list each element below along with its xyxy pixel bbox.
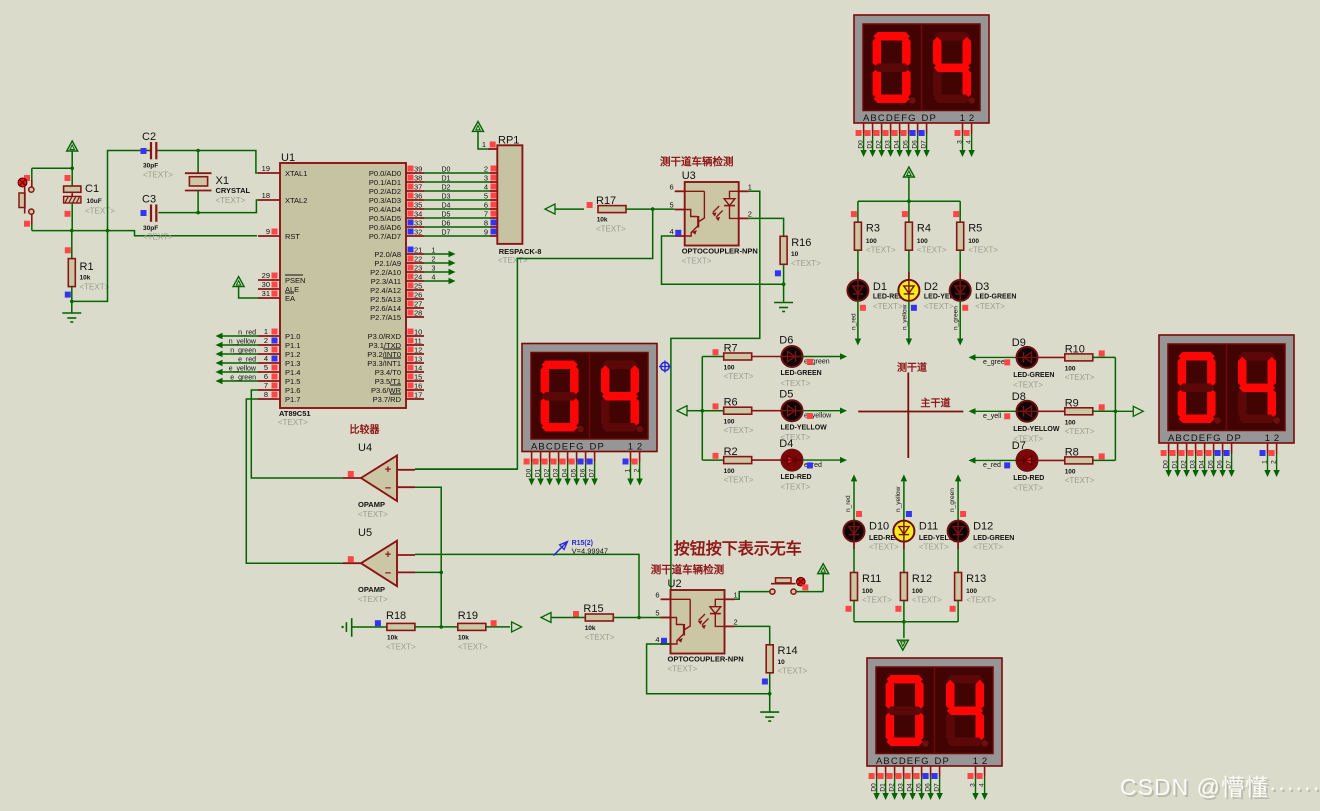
svg-text:28: 28	[414, 309, 422, 318]
svg-text:RESPACK-8: RESPACK-8	[499, 247, 542, 256]
svg-text:R1: R1	[80, 261, 94, 273]
svg-text:n_red: n_red	[850, 313, 857, 330]
svg-text:10k: 10k	[458, 635, 469, 642]
wire U4- to R18/R19 node	[415, 487, 441, 627]
svg-text:D4: D4	[779, 438, 793, 450]
wire C3 to XTAL2	[158, 200, 258, 214]
svg-text:30: 30	[262, 280, 270, 289]
svg-text:n_yellow: n_yellow	[901, 304, 908, 330]
wire R13 bottom	[950, 601, 959, 622]
svg-text:10k: 10k	[585, 625, 596, 632]
svg-text:100: 100	[1065, 365, 1076, 372]
wire R2 to D4	[752, 459, 782, 461]
svg-text:P1.0: P1.0	[285, 332, 300, 341]
svg-text:5: 5	[484, 192, 488, 201]
wire R15 to U2 pin5	[613, 616, 674, 620]
svg-text:<TEXT>: <TEXT>	[143, 233, 173, 242]
led D12 (LED-GREEN)	[948, 521, 969, 542]
svg-text:D1: D1	[873, 281, 887, 293]
svg-text:4: 4	[670, 227, 674, 236]
wire D11 top / net n_yellow	[895, 474, 912, 520]
svg-text:<TEXT>: <TEXT>	[358, 595, 388, 604]
led D2 (LED-YELLOW)	[898, 280, 919, 301]
label X1	[216, 175, 251, 205]
svg-text:P0.7/AD7: P0.7/AD7	[369, 232, 401, 241]
svg-text:10: 10	[778, 659, 786, 666]
ground terminal (R18 left)	[341, 618, 373, 637]
label D6 ref	[779, 335, 793, 347]
svg-text:<TEXT>: <TEXT>	[919, 543, 949, 552]
resistor R8 (100)	[1065, 457, 1093, 464]
svg-text:100: 100	[912, 588, 923, 595]
svg-text:D4: D4	[894, 140, 901, 149]
svg-text:<TEXT>: <TEXT>	[866, 246, 896, 255]
wire D4 bus	[424, 203, 490, 210]
capacitor C1 (10uF)	[64, 175, 81, 231]
svg-text:R5: R5	[968, 223, 982, 235]
led D6 (LED-GREEN)	[782, 346, 803, 367]
label D11	[919, 521, 966, 552]
svg-text:30pF: 30pF	[143, 225, 158, 232]
power terminal (RP1)	[473, 121, 488, 149]
wire D11 to R12	[903, 542, 905, 573]
svg-text:D2: D2	[924, 281, 938, 293]
svg-text:<TEXT>: <TEXT>	[873, 302, 903, 311]
svg-text:D6: D6	[912, 140, 919, 149]
wire net n_green (P1.2)	[216, 348, 259, 358]
svg-text:<TEXT>: <TEXT>	[458, 643, 488, 652]
svg-text:4: 4	[979, 783, 986, 787]
svg-text:2: 2	[1271, 460, 1278, 464]
svg-text:100: 100	[1065, 468, 1076, 475]
svg-text:R10: R10	[1065, 343, 1085, 355]
resistor R17	[587, 202, 626, 213]
svg-text:按钮按下表示无车: 按钮按下表示无车	[674, 539, 802, 558]
svg-text:17: 17	[414, 391, 422, 400]
svg-text:D7: D7	[442, 230, 451, 237]
svg-text:n_red: n_red	[845, 495, 852, 512]
svg-text:<TEXT>: <TEXT>	[1013, 380, 1043, 389]
svg-text:23: 23	[414, 264, 422, 273]
svg-text:D6: D6	[1217, 460, 1224, 469]
wire U2 pin4 return	[647, 644, 772, 696]
svg-text:P0.0/AD0: P0.0/AD0	[369, 169, 401, 178]
op-amp U4	[343, 442, 415, 519]
svg-text:<TEXT>: <TEXT>	[143, 171, 173, 180]
svg-text:2: 2	[637, 442, 642, 453]
label R4	[917, 223, 947, 255]
square U2 pin4	[661, 638, 667, 644]
svg-text:10uF: 10uF	[87, 198, 102, 205]
wire R7 row left	[702, 349, 723, 356]
svg-text:ABCDEFG: ABCDEFG	[863, 113, 917, 124]
label R5	[968, 223, 998, 255]
svg-text:e_green: e_green	[230, 375, 256, 382]
svg-text:C2: C2	[142, 131, 156, 143]
svg-text:R16: R16	[791, 237, 811, 249]
svg-text:8: 8	[484, 219, 488, 228]
svg-text:1: 1	[1265, 433, 1270, 444]
label R15	[583, 603, 614, 642]
label R10	[1065, 343, 1095, 382]
svg-text:D0: D0	[442, 167, 451, 174]
label R17	[596, 195, 626, 234]
svg-text:24: 24	[414, 273, 422, 282]
svg-text:<TEXT>: <TEXT>	[80, 283, 110, 292]
svg-text:12: 12	[414, 346, 422, 355]
svg-text:D4: D4	[442, 203, 451, 210]
svg-text:4: 4	[966, 140, 973, 144]
svg-text:<TEXT>: <TEXT>	[358, 510, 388, 519]
svg-text:<TEXT>: <TEXT>	[973, 543, 1003, 552]
svg-text:DP: DP	[1227, 433, 1242, 444]
wire D0 bus	[424, 167, 490, 174]
wire net n_yellow (P1.1)	[216, 339, 259, 349]
label D9 ref	[1012, 337, 1026, 349]
led D9 (LED-GREEN)	[1017, 347, 1038, 368]
svg-text:V=4.99947: V=4.99947	[572, 547, 609, 556]
svg-text:6: 6	[484, 201, 488, 210]
wire R9 right	[1093, 404, 1115, 411]
svg-text:LED-GREEN: LED-GREEN	[975, 294, 1016, 301]
terminal arrow (R17 left)	[545, 204, 584, 214]
label R6	[724, 397, 754, 436]
svg-text:n_yellow: n_yellow	[895, 486, 902, 512]
svg-text:PSEN: PSEN	[285, 276, 305, 285]
svg-text:C1: C1	[85, 183, 99, 195]
svg-text:<TEXT>: <TEXT>	[968, 246, 998, 255]
svg-text:100: 100	[866, 238, 877, 245]
svg-text:35: 35	[414, 201, 422, 210]
resistor R19 (10k)	[458, 623, 486, 630]
svg-text:<TEXT>: <TEXT>	[791, 259, 821, 268]
svg-text:2: 2	[982, 756, 987, 767]
svg-text:38: 38	[414, 174, 422, 183]
svg-text:D0: D0	[526, 468, 533, 477]
wire D7 to R8	[1038, 459, 1065, 461]
svg-text:D4: D4	[1199, 460, 1206, 469]
label D9 name	[1013, 372, 1054, 389]
wire R3 top	[851, 201, 858, 222]
svg-text:<TEXT>: <TEXT>	[278, 418, 308, 427]
wire U5- input	[415, 571, 443, 575]
svg-text:U4: U4	[358, 442, 372, 454]
svg-text:<TEXT>: <TEXT>	[668, 665, 698, 674]
svg-text:1: 1	[1262, 460, 1269, 464]
svg-text:U5: U5	[358, 527, 372, 539]
svg-text:<TEXT>: <TEXT>	[85, 207, 115, 216]
op-amp U5	[343, 527, 415, 604]
svg-text:D2: D2	[876, 140, 883, 149]
label R19	[458, 610, 488, 652]
svg-text:<TEXT>: <TEXT>	[975, 302, 1005, 311]
wire reset node horizontal	[32, 229, 257, 236]
resistor R5 (100)	[957, 222, 964, 250]
resistor R10 (100)	[1065, 354, 1093, 361]
svg-text:R7: R7	[724, 343, 738, 355]
led D1 (LED-RED)	[847, 280, 868, 301]
svg-text:R19: R19	[458, 610, 478, 622]
led D3 (LED-GREEN)	[950, 280, 971, 301]
wire R5 top	[953, 201, 960, 222]
wire U4+ input	[415, 468, 517, 470]
svg-text:ABCDEFG: ABCDEFG	[1168, 433, 1222, 444]
resistor R6 (100)	[724, 407, 752, 414]
voltage probe R15(2)	[554, 540, 609, 556]
svg-text:26: 26	[414, 291, 422, 300]
svg-text:2: 2	[432, 257, 436, 264]
svg-text:6: 6	[655, 590, 659, 599]
svg-text:C3: C3	[142, 194, 156, 206]
wire R4 top	[902, 201, 909, 222]
svg-text:D2: D2	[1181, 460, 1188, 469]
svg-text:OPAMP: OPAMP	[358, 500, 385, 509]
svg-text:<TEXT>: <TEXT>	[724, 476, 754, 485]
wire D6 right / net e_green	[803, 353, 848, 365]
led D11 (LED-YELLOW)	[893, 521, 914, 542]
wire node to C1 top	[71, 168, 73, 186]
svg-text:7: 7	[264, 381, 268, 390]
wire D5 right / net e_yellow	[803, 408, 848, 420]
wire R6 to D5	[752, 410, 782, 412]
svg-text:D4: D4	[907, 783, 914, 792]
label R7	[724, 343, 754, 382]
svg-text:22: 22	[414, 255, 422, 264]
svg-text:3: 3	[970, 783, 977, 787]
label D8 ref	[1012, 391, 1026, 403]
wire R11 bottom	[846, 601, 855, 622]
svg-text:EA: EA	[285, 294, 295, 303]
svg-text:D8: D8	[1012, 391, 1026, 403]
optocoupler U2	[655, 578, 743, 674]
led D8 (LED-YELLOW)	[1017, 401, 1038, 422]
svg-text:100: 100	[724, 365, 735, 372]
svg-text:P1.3: P1.3	[285, 359, 300, 368]
wire U2 pin1 to button	[735, 592, 770, 600]
svg-text:100: 100	[968, 238, 979, 245]
svg-text:CSDN @懵懂······: CSDN @懵懂······	[1120, 774, 1320, 800]
svg-text:6: 6	[670, 182, 674, 191]
svg-text:D5: D5	[916, 783, 923, 792]
wire D3 down / net n_green	[953, 300, 969, 345]
label D5 name	[781, 424, 828, 442]
wire R3 to D1	[857, 250, 859, 280]
svg-text:−: −	[385, 483, 391, 495]
svg-text:25: 25	[414, 282, 422, 291]
svg-text:LED-YELLOW: LED-YELLOW	[781, 424, 828, 431]
svg-text:100: 100	[724, 468, 735, 475]
svg-text:<TEXT>: <TEXT>	[862, 596, 892, 605]
svg-text:e_yellow: e_yellow	[229, 366, 257, 373]
svg-text:5: 5	[655, 609, 659, 618]
wire U4+ feedback net	[415, 209, 653, 469]
svg-text:4: 4	[655, 635, 659, 644]
svg-text:DP: DP	[935, 756, 950, 767]
svg-text:R12: R12	[912, 573, 932, 585]
svg-text:10k: 10k	[80, 275, 91, 282]
svg-text:测干道车辆检测: 测干道车辆检测	[651, 563, 725, 576]
wire U2 pin2 to R14	[735, 626, 770, 644]
svg-text:<TEXT>: <TEXT>	[1065, 373, 1095, 382]
wire U5+ probe net	[415, 554, 639, 617]
optocoupler U3	[670, 170, 758, 266]
svg-text:R3: R3	[866, 223, 880, 235]
wire north rail	[858, 199, 960, 203]
wire P1.6 to U4	[251, 390, 343, 478]
svg-text:P1.5: P1.5	[285, 377, 300, 386]
svg-text:D5: D5	[442, 212, 451, 219]
svg-text:P1.1: P1.1	[285, 341, 300, 350]
7-segment display top (north)	[854, 15, 989, 157]
svg-text:R13: R13	[966, 573, 986, 585]
svg-text:D3: D3	[975, 281, 989, 293]
label 主干道	[921, 397, 951, 410]
svg-text:39: 39	[414, 165, 422, 174]
svg-text:9: 9	[484, 228, 488, 237]
wire D2 down / net n_yellow	[901, 300, 917, 345]
svg-text:D1: D1	[880, 783, 887, 792]
wire D12 to R13	[957, 542, 959, 573]
svg-text:+: +	[385, 549, 391, 561]
svg-text:3: 3	[432, 266, 436, 273]
label C2	[142, 131, 173, 180]
wire D12 top / net n_green	[949, 474, 966, 520]
svg-text:n_yellow: n_yellow	[229, 339, 257, 346]
resistor R9 (100)	[1065, 408, 1093, 415]
wire button to power	[796, 574, 823, 592]
svg-text:33: 33	[414, 219, 422, 228]
wire D8 row left / net e_yell	[969, 408, 1017, 420]
svg-text:34: 34	[414, 210, 422, 219]
wire R6 row left	[702, 403, 723, 410]
label D2	[924, 281, 971, 311]
label R1	[80, 261, 110, 292]
svg-text:1: 1	[734, 590, 738, 599]
resistor R14 (10)	[762, 645, 773, 712]
wire D4 right / net e_red	[803, 457, 848, 469]
svg-text:DP: DP	[590, 442, 605, 453]
svg-text:U1: U1	[281, 152, 295, 164]
svg-text:DP: DP	[922, 113, 937, 124]
annotation 按钮按下表示无车	[674, 539, 802, 558]
road horizontal 主干道	[858, 411, 963, 413]
svg-text:<TEXT>: <TEXT>	[869, 543, 899, 552]
svg-text:n_green: n_green	[949, 488, 956, 512]
svg-text:P2.6/A14: P2.6/A14	[370, 304, 401, 313]
svg-text:+: +	[385, 464, 391, 476]
svg-text:<TEXT>: <TEXT>	[682, 257, 712, 266]
svg-text:10: 10	[414, 328, 422, 337]
svg-text:4: 4	[264, 354, 268, 363]
svg-text:P0.6/AD6: P0.6/AD6	[369, 223, 401, 232]
svg-text:11: 11	[414, 337, 422, 346]
svg-text:2: 2	[264, 336, 268, 345]
wire east rail	[1114, 357, 1116, 460]
label 测干道 (cross)	[897, 361, 927, 374]
svg-text:OPTOCOUPLER-NPN: OPTOCOUPLER-NPN	[682, 247, 758, 256]
svg-text:D2: D2	[442, 185, 451, 192]
wire R18-R19	[415, 625, 458, 629]
svg-text:10: 10	[791, 251, 799, 258]
terminal arrow (west)	[677, 406, 702, 416]
svg-text:14: 14	[414, 364, 422, 373]
wire D1 down / net n_red	[850, 300, 866, 345]
capacitor C2 (30pF)	[141, 142, 159, 159]
svg-text:36: 36	[414, 192, 422, 201]
svg-text:3: 3	[484, 174, 488, 183]
svg-text:2: 2	[1274, 433, 1279, 444]
svg-text:e_gree: e_gree	[983, 359, 1005, 366]
svg-text:U3: U3	[682, 170, 696, 182]
svg-text:27: 27	[414, 300, 422, 309]
label R16	[791, 237, 821, 268]
svg-text:D11: D11	[919, 521, 938, 533]
resistor R7 (100)	[724, 353, 752, 360]
svg-text:P0.1/AD1: P0.1/AD1	[369, 178, 401, 187]
svg-text:D6: D6	[779, 335, 793, 347]
wire U3 pin2 to R16	[749, 218, 784, 236]
resistor R4 (100)	[905, 222, 912, 250]
svg-text:1: 1	[625, 468, 632, 472]
resistor R3 (100)	[854, 222, 861, 250]
svg-text:P2.0/A8: P2.0/A8	[374, 250, 401, 259]
7-segment display bottom (south)	[867, 658, 1002, 800]
svg-text:2: 2	[634, 468, 641, 472]
wire R5 to D3	[959, 250, 961, 280]
svg-text:n_red: n_red	[238, 330, 256, 337]
svg-text:21: 21	[414, 246, 422, 255]
svg-text:D6: D6	[580, 468, 587, 477]
svg-text:19: 19	[262, 164, 270, 173]
label D10	[869, 521, 900, 552]
wire R10 right	[1093, 350, 1115, 357]
label D8 name	[1013, 426, 1060, 443]
svg-text:P0.3/AD3: P0.3/AD3	[369, 196, 401, 205]
wire net e_yellow (P1.4)	[216, 366, 259, 376]
svg-text:D1: D1	[442, 176, 451, 183]
wire D7 row left / net e_red	[969, 457, 1017, 469]
svg-text:R9: R9	[1065, 397, 1079, 409]
label C1	[85, 183, 115, 216]
svg-text:5: 5	[670, 201, 674, 210]
label D4 ref	[779, 438, 793, 450]
svg-text:e_red: e_red	[238, 357, 256, 364]
svg-text:D6: D6	[925, 783, 932, 792]
label D1	[873, 281, 904, 311]
led D7 (LED-RED)	[1017, 450, 1038, 471]
svg-text:R17: R17	[596, 195, 616, 207]
svg-text:16: 16	[414, 382, 422, 391]
watermark CSDN	[1120, 774, 1320, 802]
label D7 name	[1013, 475, 1044, 492]
svg-text:P1.4: P1.4	[285, 368, 300, 377]
svg-text:<TEXT>: <TEXT>	[216, 196, 246, 205]
svg-text:n_green: n_green	[230, 348, 256, 355]
svg-text:D7: D7	[589, 468, 596, 477]
label D4 name	[781, 474, 812, 492]
wire U3 pin1 net	[671, 191, 760, 617]
svg-text:<TEXT>: <TEXT>	[781, 483, 811, 492]
svg-text:32: 32	[414, 228, 422, 237]
svg-text:D5: D5	[1208, 460, 1215, 469]
svg-text:100: 100	[1065, 419, 1076, 426]
svg-text:ABCDEFG: ABCDEFG	[876, 756, 930, 767]
push button SW1	[18, 168, 34, 230]
label D6 name	[781, 370, 822, 388]
wire R17 to U3 pin5	[626, 207, 675, 211]
resistor pack RP1 RESPACK-8	[482, 135, 542, 266]
square U3 pin4	[675, 230, 681, 236]
